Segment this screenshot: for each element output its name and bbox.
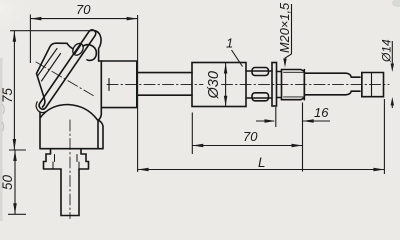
svg-text:70: 70: [76, 2, 91, 17]
svg-text:Ø14: Ø14: [380, 39, 394, 63]
svg-text:M20×1,5: M20×1,5: [277, 2, 292, 53]
svg-text:50: 50: [0, 174, 15, 190]
svg-text:70: 70: [243, 129, 258, 144]
svg-text:75: 75: [0, 87, 15, 103]
svg-text:1: 1: [226, 36, 233, 51]
svg-text:Ø30: Ø30: [206, 71, 222, 99]
svg-text:L: L: [258, 155, 266, 170]
svg-text:16: 16: [314, 105, 329, 120]
